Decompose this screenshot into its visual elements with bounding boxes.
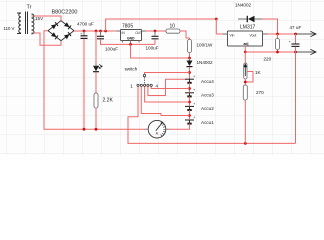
svg-text:100uF: 100uF [105, 47, 118, 52]
svg-text:100/1W: 100/1W [197, 43, 213, 48]
svg-text:2.2K: 2.2K [103, 98, 114, 104]
svg-text:Accu3: Accu3 [201, 93, 214, 98]
svg-text:110 V: 110 V [4, 26, 15, 31]
svg-text:4: 4 [156, 83, 159, 88]
svg-text:1N4002: 1N4002 [197, 60, 214, 65]
svg-text:Tr: Tr [27, 5, 32, 11]
svg-text:1K: 1K [255, 70, 262, 75]
svg-text:47 uF: 47 uF [290, 25, 302, 30]
svg-text:15V: 15V [35, 16, 44, 21]
svg-text:4700 uF: 4700 uF [77, 22, 94, 27]
svg-text:1N4002: 1N4002 [235, 3, 252, 8]
svg-text:7805: 7805 [122, 24, 133, 30]
svg-text:1: 1 [130, 83, 133, 88]
svg-text:10: 10 [170, 24, 176, 30]
svg-text:adj: adj [244, 42, 249, 46]
svg-text:OUT: OUT [135, 31, 142, 35]
svg-text:Vin: Vin [230, 34, 235, 38]
svg-text:270: 270 [256, 90, 264, 95]
svg-text:Accu2: Accu2 [201, 106, 214, 111]
svg-text:220: 220 [264, 57, 272, 62]
svg-text:Vout: Vout [250, 34, 257, 38]
svg-text:100uF: 100uF [146, 46, 159, 51]
svg-text:B80C2200: B80C2200 [52, 10, 78, 16]
svg-text:switch: switch [125, 67, 138, 72]
svg-text:LM317: LM317 [240, 25, 256, 31]
svg-text:Accu1: Accu1 [201, 120, 214, 125]
svg-text:Accu4: Accu4 [201, 79, 214, 84]
svg-text:GND: GND [127, 36, 135, 40]
